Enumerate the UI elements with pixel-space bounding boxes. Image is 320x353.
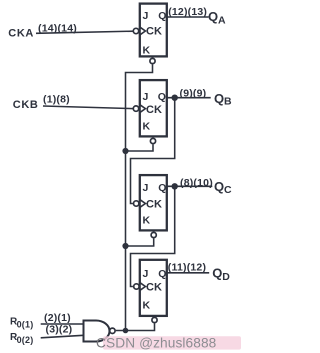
svg-text:J: J (143, 182, 149, 194)
svg-text:CK: CK (146, 282, 162, 294)
svg-text:CKA: CKA (8, 28, 34, 40)
svg-text:CSDN @zhusl6888: CSDN @zhusl6888 (96, 335, 217, 350)
svg-text:K: K (143, 45, 151, 57)
svg-text:(2)(1): (2)(1) (44, 312, 71, 324)
svg-text:K: K (143, 121, 151, 133)
svg-text:J: J (143, 10, 149, 22)
svg-text:J: J (143, 91, 149, 103)
svg-text:B: B (224, 96, 232, 108)
svg-text:Q: Q (214, 179, 224, 194)
svg-text:(11)(12): (11)(12) (168, 262, 206, 274)
svg-text:J: J (143, 268, 149, 280)
svg-text:(1)(8): (1)(8) (43, 94, 70, 106)
svg-text:Q: Q (158, 182, 166, 194)
svg-text:C: C (224, 184, 232, 196)
svg-text:CK: CK (146, 104, 162, 116)
svg-text:Q: Q (208, 9, 218, 24)
svg-text:A: A (218, 15, 226, 27)
svg-text:CK: CK (146, 199, 162, 211)
svg-text:(9)(9): (9)(9) (180, 88, 207, 100)
svg-text:Q: Q (158, 10, 166, 22)
svg-text:(8)(10): (8)(10) (180, 177, 213, 189)
svg-text:Q: Q (214, 91, 224, 106)
svg-text:CK: CK (146, 26, 162, 38)
svg-text:0(1): 0(1) (17, 319, 34, 329)
svg-text:(12)(13): (12)(13) (168, 6, 207, 18)
svg-text:K: K (143, 300, 151, 312)
svg-text:Q: Q (158, 268, 166, 280)
svg-text:(3)(2): (3)(2) (46, 324, 73, 336)
svg-text:D: D (222, 271, 230, 283)
svg-text:CKB: CKB (13, 99, 39, 111)
svg-text:(14)(14): (14)(14) (38, 23, 77, 35)
svg-text:K: K (143, 214, 151, 226)
svg-text:Q: Q (212, 266, 222, 281)
svg-text:Q: Q (158, 91, 166, 103)
svg-text:0(2): 0(2) (17, 335, 34, 345)
